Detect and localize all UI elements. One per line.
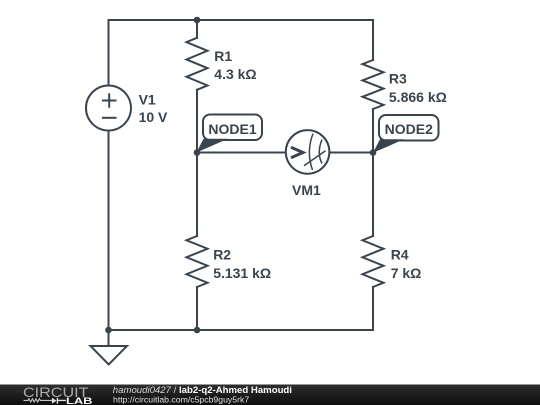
svg-text:5.866 kΩ: 5.866 kΩ bbox=[389, 89, 447, 105]
wire VM1 right terminal to NODE2 bbox=[330, 152, 374, 154]
logo resistor squiggle bbox=[24, 399, 53, 402]
wire ground stub bbox=[108, 330, 110, 346]
node NODE1 callout bbox=[197, 115, 263, 153]
junction dot node2 bbox=[370, 149, 377, 156]
resistor R2 bbox=[187, 236, 208, 287]
svg-text:V1: V1 bbox=[139, 92, 156, 108]
svg-text:VM1: VM1 bbox=[292, 182, 321, 198]
svg-text:LAB: LAB bbox=[66, 396, 93, 405]
ground symbol bbox=[91, 346, 128, 365]
svg-text:5.131 kΩ: 5.131 kΩ bbox=[213, 265, 271, 281]
svg-text:R3: R3 bbox=[389, 70, 407, 86]
junction dot bottom net bbox=[194, 327, 201, 334]
svg-text:4.3 kΩ: 4.3 kΩ bbox=[214, 66, 256, 82]
junction dot ground corner bbox=[105, 327, 112, 334]
svg-text:NODE2: NODE2 bbox=[385, 121, 433, 137]
svg-text:NODE1: NODE1 bbox=[208, 121, 256, 137]
svg-text:http://circuitlab.com/c5pcb9gu: http://circuitlab.com/c5pcb9guy5rk7 bbox=[113, 394, 249, 404]
wire left vertical to V1 top bbox=[108, 20, 110, 86]
svg-text:7 kΩ: 7 kΩ bbox=[391, 265, 422, 281]
voltmeter VM1 bbox=[286, 130, 330, 174]
wire NODE2 to R4 bbox=[372, 153, 374, 237]
wire R1 to NODE1 bbox=[196, 90, 198, 153]
wire bottom horizontal ground net bbox=[109, 329, 374, 331]
svg-text:R1: R1 bbox=[214, 48, 232, 64]
wire R2 to bottom net bbox=[196, 287, 198, 330]
resistor R1 bbox=[187, 38, 208, 90]
resistor R3 bbox=[363, 60, 384, 109]
wire V1 bottom to ground net bbox=[108, 131, 110, 331]
logo diode symbol bbox=[52, 398, 57, 404]
wire R4 to bottom net bbox=[372, 287, 374, 330]
junction dot top net bbox=[194, 17, 201, 24]
wire top to R3 bbox=[372, 20, 374, 60]
node NODE2 callout bbox=[373, 115, 439, 153]
wire top horizontal net bbox=[109, 19, 374, 21]
wire top to R1 bbox=[196, 20, 198, 38]
svg-text:R2: R2 bbox=[213, 247, 231, 263]
wire R3 to NODE2 bbox=[372, 109, 374, 153]
voltage source V1 bbox=[86, 86, 131, 131]
footer bar bbox=[0, 385, 540, 405]
junction dot node1 bbox=[194, 149, 201, 156]
svg-text:10 V: 10 V bbox=[139, 109, 168, 125]
resistor R4 bbox=[363, 236, 384, 287]
svg-text:R4: R4 bbox=[391, 247, 409, 263]
wire NODE1 to R2 bbox=[196, 153, 198, 237]
wire NODE1 to VM1 left terminal bbox=[197, 152, 286, 154]
